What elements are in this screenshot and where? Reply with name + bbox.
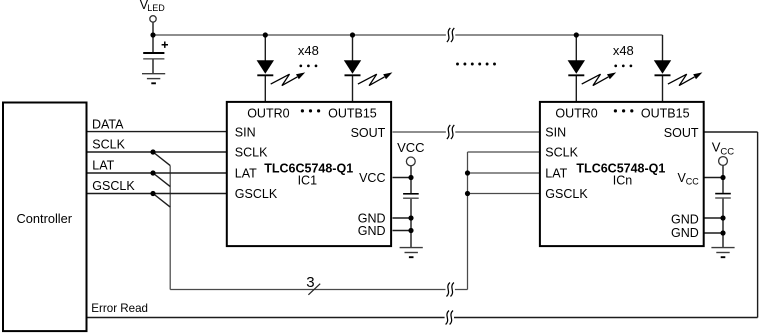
svg-text:3: 3 xyxy=(306,274,314,291)
svg-text:Error Read: Error Read xyxy=(91,302,148,315)
svg-text:GND: GND xyxy=(671,226,699,240)
svg-text:LED: LED xyxy=(147,3,165,13)
svg-text:GSCLK: GSCLK xyxy=(545,187,588,201)
svg-text:GND: GND xyxy=(358,224,386,238)
svg-text:SOUT: SOUT xyxy=(351,126,386,140)
svg-text:SCLK: SCLK xyxy=(92,138,125,152)
svg-text:SOUT: SOUT xyxy=(664,126,699,140)
svg-text:SCLK: SCLK xyxy=(545,146,578,160)
svg-text:x48: x48 xyxy=(613,43,634,58)
svg-text:OUTR0: OUTR0 xyxy=(555,106,597,120)
svg-text:LAT: LAT xyxy=(235,167,257,181)
svg-text:OUTR0: OUTR0 xyxy=(247,106,289,120)
svg-text:OUTB15: OUTB15 xyxy=(328,106,377,120)
svg-text:ICn: ICn xyxy=(613,173,633,187)
svg-text:VCC: VCC xyxy=(359,171,385,185)
svg-text:x48: x48 xyxy=(298,43,319,58)
svg-text:SIN: SIN xyxy=(545,126,566,140)
svg-text:GSCLK: GSCLK xyxy=(92,179,135,193)
svg-text:LAT: LAT xyxy=(92,159,114,173)
svg-text:GND: GND xyxy=(671,213,699,227)
svg-text:SCLK: SCLK xyxy=(235,146,268,160)
svg-text:Controller: Controller xyxy=(17,211,73,226)
svg-text:IC1: IC1 xyxy=(298,173,318,187)
svg-text:DATA: DATA xyxy=(92,117,124,131)
svg-text:GSCLK: GSCLK xyxy=(235,187,278,201)
svg-text:OUTB15: OUTB15 xyxy=(641,106,690,120)
svg-text:SIN: SIN xyxy=(235,126,256,140)
svg-text:LAT: LAT xyxy=(545,167,567,181)
svg-text:VCC: VCC xyxy=(397,140,424,155)
